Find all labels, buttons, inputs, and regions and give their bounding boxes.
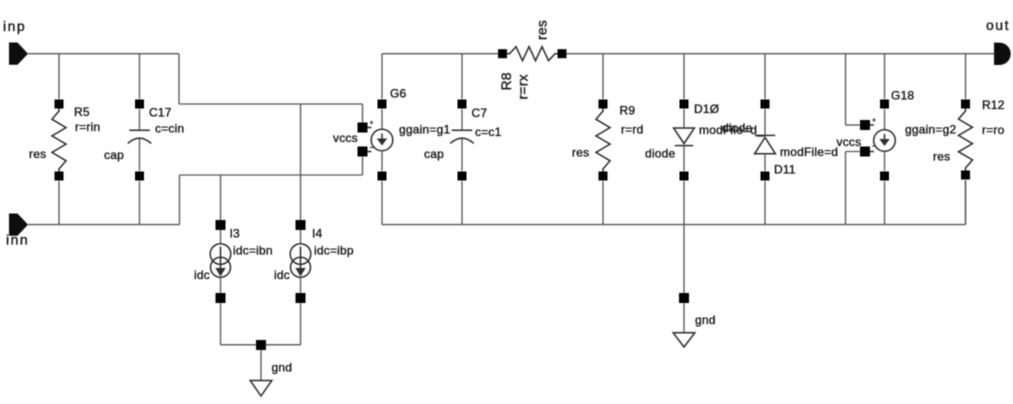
svg-text:r=rx: r=rx [515,74,531,99]
svg-text:r=ro: r=ro [982,123,1005,137]
svg-text:gnd: gnd [695,313,716,327]
wire junction to ground [260,350,262,381]
svg-text:r=rin: r=rin [75,120,100,134]
svg-text:idc=ibn: idc=ibn [233,244,273,258]
input pin inp [9,43,28,65]
resistor R12 [959,54,973,225]
wire inp net horizontal bus [179,103,363,105]
svg-text:vccs: vccs [837,135,862,149]
svg-text:c=cin: c=cin [155,122,184,136]
wire node2 rail R8 to out pin [567,53,995,55]
wire inn net rise to G6 minus terminal [362,156,364,175]
svg-text:cap: cap [104,148,124,162]
svg-text:ggain=g2: ggain=g2 [905,123,956,137]
diode D10 [674,54,695,225]
svg-text:diode: diode [645,147,675,161]
junction on gnd wire [256,340,266,350]
svg-text:R5: R5 [74,105,90,119]
svg-text:C7: C7 [472,106,488,120]
wire inn net horizontal bus [180,174,363,176]
svg-text:r=rd: r=rd [621,123,643,137]
wire ground rail tap to gnd [683,225,685,293]
current source I3 [210,175,231,345]
svg-text:R12: R12 [982,98,1005,112]
junction square on gnd tap [679,293,689,303]
svg-text:idc=ibp: idc=ibp [314,244,354,258]
svg-text:res: res [933,150,950,164]
resistor R8 [498,47,567,61]
svg-text:diode: diode [722,121,752,135]
wire gnd net below I3 I4 [221,344,301,346]
diode D11 [755,54,776,225]
svg-text:C17: C17 [149,106,172,120]
svg-text:cap: cap [424,147,444,161]
svg-text:R9: R9 [620,104,636,118]
current source I4 [290,104,311,345]
svg-text:I4: I4 [312,227,323,241]
wire inp net jog down [178,54,180,104]
ground symbol middle [673,333,695,347]
capacitor C17 [128,54,151,225]
svg-text:vccs: vccs [333,131,358,145]
svg-text:ggain=g1: ggain=g1 [399,123,450,137]
svg-text:modFile=d: modFile=d [780,145,838,159]
svg-text:out: out [986,17,1010,33]
wire jog to G18 plus terminal [846,124,861,126]
svg-text:res: res [572,146,589,160]
capacitor C7 [450,54,473,225]
svg-text:D11: D11 [774,163,796,177]
svg-text:res: res [534,20,550,40]
output pin out [994,43,1011,65]
wire G18 minus terminal to ground rail [846,152,861,225]
wire node1 rail G6 to R8 [382,53,498,55]
svg-text:G18: G18 [891,89,914,103]
wire inn net jog up [179,175,181,225]
svg-text:res: res [29,147,46,161]
svg-text:gnd: gnd [272,361,293,375]
wire inn net horizontal from pin [28,224,180,226]
svg-text:inp: inp [3,18,26,34]
svg-text:idc: idc [194,268,210,282]
input pin inn [9,214,28,236]
vccs G18 [860,54,895,225]
ground symbol left [250,381,272,397]
resistor R9 [596,54,610,225]
wire node2 drop to G18 plus control [845,54,847,125]
wire ground rail [382,224,966,226]
resistor R5 [52,54,66,225]
vccs G6 [358,54,393,225]
wire inp net horizontal from pin [28,53,179,55]
wire to ground symbol [683,303,685,333]
svg-text:G6: G6 [390,87,407,101]
svg-text:idc: idc [274,268,290,282]
svg-text:I3: I3 [230,227,241,241]
wire inp net drop to G6 plus terminal [362,104,364,123]
wire ground rail rise to R12 [965,180,967,225]
svg-text:D1Ø: D1Ø [694,102,719,116]
svg-text:c=c1: c=c1 [475,125,502,139]
svg-text:R8: R8 [498,72,514,90]
